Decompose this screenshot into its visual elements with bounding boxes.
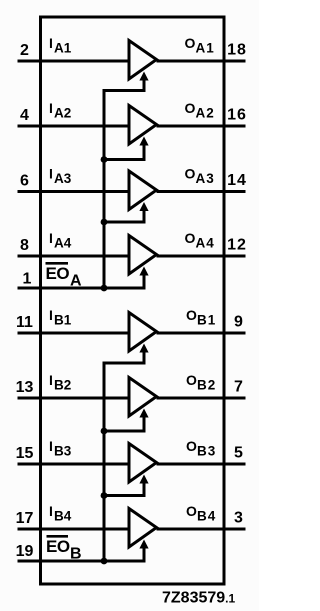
svg-text:O: O (185, 230, 196, 246)
svg-text:A: A (70, 273, 82, 290)
buffer UB1 (3-state driver) (129, 313, 157, 352)
svg-text:O: O (186, 307, 197, 323)
enable arrow into UA4 (139, 267, 148, 290)
junction dot on EO_B bus at UB2 branch (101, 428, 108, 435)
svg-text:I: I (49, 166, 53, 182)
enable arrow into UA1 (139, 72, 148, 93)
wire: input IB1 (pin 11) (18, 332, 131, 335)
wire: enable branch to UB3 (103, 494, 145, 497)
IC outline box (41, 17, 225, 584)
svg-text:O: O (186, 503, 197, 519)
wire: input IA2 (pin 4) (18, 125, 131, 128)
svg-text:7Z83579.1: 7Z83579.1 (162, 590, 236, 607)
label IB1 (49, 307, 72, 328)
label IA1 (49, 35, 72, 56)
svg-text:O: O (185, 166, 196, 182)
wire: input IB3 (pin 15) (18, 463, 131, 466)
buffer UA3 (3-state driver) (129, 171, 157, 210)
label OB4 (186, 503, 216, 524)
wire: enable branch to UB1 (103, 362, 145, 365)
svg-text:O: O (185, 35, 196, 51)
svg-text:A2: A2 (54, 106, 71, 121)
wire: input IA1 (pin 2) (18, 60, 131, 63)
wire: output OA3 (pin 14) (157, 190, 246, 193)
svg-text:I: I (49, 100, 53, 116)
svg-text:I: I (49, 35, 53, 51)
wire: output OB3 (pin 5) (157, 463, 246, 466)
svg-text:EO: EO (46, 264, 70, 283)
label OB1 (186, 307, 216, 328)
label IA4 (49, 230, 72, 251)
svg-text:B1: B1 (197, 313, 216, 328)
svg-text:B3: B3 (54, 444, 72, 459)
wire: input IB4 (pin 17) (18, 528, 131, 531)
label OA4 (185, 230, 215, 251)
junction dot on EO_B bus at UB3 branch (101, 492, 108, 499)
svg-text:EO: EO (46, 537, 70, 556)
enable arrow into UB1 (139, 344, 148, 365)
wire: output OA2 (pin 16) (157, 125, 246, 128)
buffer UA1 (3-state driver) (129, 41, 157, 80)
label OA1 (185, 35, 215, 56)
svg-text:9: 9 (234, 314, 243, 331)
svg-text:1: 1 (23, 271, 32, 288)
enable arrow into UB2 (139, 409, 148, 433)
label IB3 (49, 438, 72, 459)
enable arrow into UA3 (139, 202, 148, 224)
junction dot on EO_A bus at UA2 branch (101, 156, 108, 163)
wire: enable branch to UA1 (103, 89, 145, 92)
svg-text:A4: A4 (54, 236, 72, 251)
svg-text:A4: A4 (196, 236, 215, 251)
svg-text:B2: B2 (197, 378, 216, 393)
label IA2 (49, 100, 71, 121)
junction dot on EO_A bus at UA3 branch (101, 219, 108, 226)
wire: input IA4 (pin 8) (18, 255, 131, 258)
label EO_B with overline (46, 536, 82, 562)
buffer UA4 (3-state driver) (129, 236, 157, 275)
enable arrow into UB4 (139, 540, 148, 563)
svg-text:O: O (185, 100, 196, 116)
buffer UB3 (3-state driver) (129, 444, 157, 483)
wire: enable branch to UA3 (103, 221, 145, 224)
wire: enable branch to UA2 (103, 158, 145, 161)
svg-text:A1: A1 (196, 41, 215, 56)
svg-text:A3: A3 (196, 171, 215, 186)
buffer UB2 (3-state driver) (129, 378, 157, 417)
svg-text:2: 2 (20, 42, 29, 59)
wire: output OA1 (pin 18) (157, 60, 246, 63)
svg-text:12: 12 (227, 237, 247, 254)
svg-text:I: I (49, 503, 53, 519)
svg-text:B4: B4 (54, 509, 72, 524)
svg-text:13: 13 (16, 379, 34, 396)
wire: input IA3 (pin 6) (18, 190, 131, 193)
svg-text:I: I (49, 230, 53, 246)
wire: enable branch to UB2 (103, 430, 145, 433)
wire: EO_B input (pin 19) (18, 560, 145, 563)
svg-text:15: 15 (16, 445, 34, 462)
svg-text:6: 6 (20, 173, 29, 190)
buffer UA2 (3-state driver) (129, 106, 157, 145)
label IB2 (49, 372, 71, 393)
junction dot EO_A bus at U A4 branch (101, 285, 108, 292)
svg-text:17: 17 (16, 510, 34, 527)
svg-text:O: O (186, 438, 197, 454)
wire: output OA4 (pin 12) (157, 255, 246, 258)
svg-text:I: I (49, 438, 53, 454)
junction dot EO_B bus at U B4 branch (101, 558, 108, 565)
wire: EO_B enable bus vertical (103, 362, 106, 562)
enable arrow into UA2 (139, 137, 148, 162)
wire: output OB4 (pin 3) (157, 528, 246, 531)
svg-text:B3: B3 (197, 444, 216, 459)
wire: output OB1 (pin 9) (157, 332, 246, 335)
svg-text:I: I (49, 307, 53, 323)
wire: output OB2 (pin 7) (157, 397, 246, 400)
label OB2 (186, 372, 216, 393)
label IA3 (49, 166, 72, 187)
svg-text:A3: A3 (54, 171, 72, 186)
svg-text:19: 19 (16, 543, 34, 560)
enable arrow into UB3 (139, 475, 148, 498)
svg-text:11: 11 (16, 314, 33, 331)
svg-text:3: 3 (234, 510, 243, 527)
svg-text:A1: A1 (54, 41, 72, 56)
wire: EO_A input (pin 1) (18, 287, 145, 290)
svg-text:B2: B2 (54, 378, 71, 393)
wire: input IB2 (pin 13) (18, 397, 131, 400)
svg-text:B1: B1 (54, 313, 72, 328)
svg-text:4: 4 (20, 107, 29, 124)
svg-text:A2: A2 (196, 106, 215, 121)
svg-text:18: 18 (227, 42, 247, 59)
label OA2 (185, 100, 215, 121)
label OA3 (185, 166, 215, 187)
svg-text:14: 14 (227, 172, 247, 189)
svg-text:16: 16 (227, 107, 247, 124)
wire: EO_A enable bus vertical (103, 89, 106, 288)
buffer UB4 (3-state driver) (129, 509, 157, 548)
svg-text:5: 5 (234, 445, 243, 462)
svg-text:O: O (186, 372, 197, 388)
svg-text:I: I (49, 372, 53, 388)
svg-text:8: 8 (20, 237, 29, 254)
label IB4 (49, 503, 72, 524)
label EO_A with overline (46, 263, 83, 289)
svg-text:B4: B4 (197, 509, 216, 524)
label OB3 (186, 438, 216, 459)
svg-text:7: 7 (234, 379, 243, 396)
svg-text:B: B (70, 546, 82, 563)
